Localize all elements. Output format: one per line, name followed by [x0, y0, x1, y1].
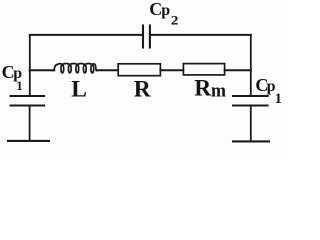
wire right node to capacitor Cp1 right — [250, 70, 252, 96]
wire left vertical (top rail to left node) — [29, 35, 31, 70]
wire inductor L to resistor R — [97, 69, 118, 71]
capacitor Cp2 right plate — [149, 26, 151, 48]
wire top rail right segment — [151, 34, 251, 36]
wire right vertical (top rail to right node) — [250, 35, 252, 70]
wire left node to inductor L — [30, 69, 55, 71]
svg-text:L: L — [71, 77, 87, 103]
svg-text:R: R — [134, 77, 152, 103]
label Cp1 left — [2, 62, 23, 93]
ground right bar — [233, 140, 269, 142]
capacitor Cp2 left plate — [142, 26, 144, 48]
wire resistor Rm to right node — [225, 69, 251, 71]
inductor L coil — [53, 64, 96, 73]
wire left node to capacitor Cp1 left — [29, 70, 31, 96]
capacitor Cp1 right top plate — [233, 95, 268, 97]
ground left bar — [8, 140, 49, 142]
resistor Rm body — [183, 64, 224, 75]
wire top rail left segment — [30, 34, 142, 36]
svg-text:1: 1 — [16, 78, 23, 93]
wire capacitor Cp1 right to ground — [250, 106, 252, 142]
capacitor Cp1 left bottom plate — [11, 105, 45, 107]
svg-text:R: R — [194, 76, 212, 102]
label Cp2 — [149, 0, 178, 27]
label Cp1 right — [255, 75, 281, 107]
wire capacitor Cp1 left to ground — [29, 106, 31, 141]
capacitor Cp1 left top plate — [11, 95, 45, 97]
wire resistor R to resistor Rm — [160, 69, 183, 71]
svg-text:p: p — [161, 2, 170, 19]
capacitor Cp1 right bottom plate — [233, 105, 268, 107]
svg-text:m: m — [211, 82, 227, 102]
svg-text:1: 1 — [275, 91, 282, 107]
svg-text:2: 2 — [171, 12, 179, 27]
resistor R body — [118, 64, 160, 76]
label Rm — [194, 76, 226, 102]
